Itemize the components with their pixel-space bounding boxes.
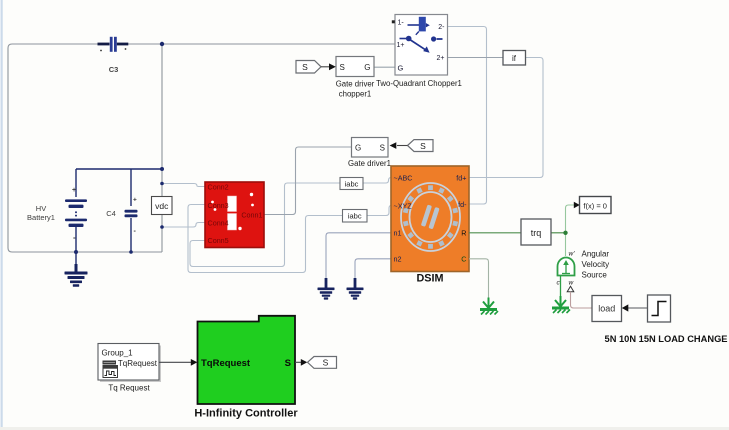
svg-text:Source: Source: [582, 271, 608, 280]
svg-text:G: G: [398, 64, 404, 73]
svg-text:Conn4: Conn4: [208, 219, 229, 228]
svg-text:Two-Quadrant Chopper1: Two-Quadrant Chopper1: [376, 79, 462, 88]
svg-text:~ABC: ~ABC: [394, 173, 413, 182]
svg-text:+: +: [72, 187, 76, 194]
svg-text:TqRequest: TqRequest: [201, 358, 251, 369]
svg-text:chopper1: chopper1: [339, 90, 372, 99]
svg-text:iabc: iabc: [345, 179, 359, 188]
svg-text:R: R: [461, 229, 466, 238]
svg-text:trq: trq: [531, 228, 542, 238]
svg-text:C3: C3: [109, 65, 119, 74]
svg-text:n1: n1: [394, 229, 402, 238]
svg-text:S: S: [420, 141, 426, 151]
svg-text:H-Infinity Controller: H-Infinity Controller: [194, 408, 298, 420]
svg-text:Velocity: Velocity: [582, 260, 610, 269]
svg-text:S: S: [340, 63, 345, 72]
svg-text:iabc: iabc: [348, 212, 362, 221]
svg-text:Gate driver: Gate driver: [336, 80, 375, 89]
svg-text:Conn2: Conn2: [208, 183, 229, 192]
svg-text:Gate driver1: Gate driver1: [348, 159, 391, 168]
svg-text:2+: 2+: [437, 55, 445, 62]
svg-text:2-: 2-: [438, 24, 445, 31]
svg-text:-: -: [73, 233, 76, 242]
svg-text:Conn1: Conn1: [241, 211, 262, 220]
svg-text:DSIM: DSIM: [417, 273, 444, 285]
svg-text:5N 10N 15N LOAD CHANGE: 5N 10N 15N LOAD CHANGE: [605, 334, 728, 344]
svg-text:Conn3: Conn3: [208, 201, 229, 210]
svg-text:+: +: [133, 197, 137, 204]
svg-text:C4: C4: [106, 209, 116, 218]
svg-text:C: C: [461, 255, 466, 264]
svg-text:n2: n2: [394, 255, 402, 264]
svg-text:Angular: Angular: [582, 250, 610, 259]
svg-text:S: S: [302, 62, 308, 72]
svg-text:Conn5: Conn5: [208, 236, 229, 245]
svg-text:Battery1: Battery1: [27, 213, 55, 222]
svg-text:S: S: [380, 144, 385, 153]
svg-text:load: load: [598, 304, 615, 314]
svg-text:G: G: [355, 144, 361, 153]
svg-text:HV: HV: [36, 204, 46, 213]
svg-text:1+: 1+: [397, 42, 405, 49]
svg-text:1-: 1-: [398, 19, 405, 26]
svg-text:S: S: [285, 358, 291, 369]
svg-text:vdc: vdc: [155, 201, 169, 211]
svg-text:~XYZ: ~XYZ: [394, 201, 413, 210]
svg-text:w': w': [569, 251, 576, 258]
svg-text:Group_1: Group_1: [102, 349, 134, 358]
svg-text:G: G: [364, 63, 370, 72]
svg-text:f(x) = 0: f(x) = 0: [583, 201, 607, 210]
svg-text:Tq Request: Tq Request: [108, 384, 150, 393]
svg-text:S: S: [323, 358, 329, 368]
svg-text:fd+: fd+: [456, 173, 466, 182]
svg-text:fd-: fd-: [458, 200, 467, 209]
svg-text:TqRequest: TqRequest: [118, 359, 158, 368]
